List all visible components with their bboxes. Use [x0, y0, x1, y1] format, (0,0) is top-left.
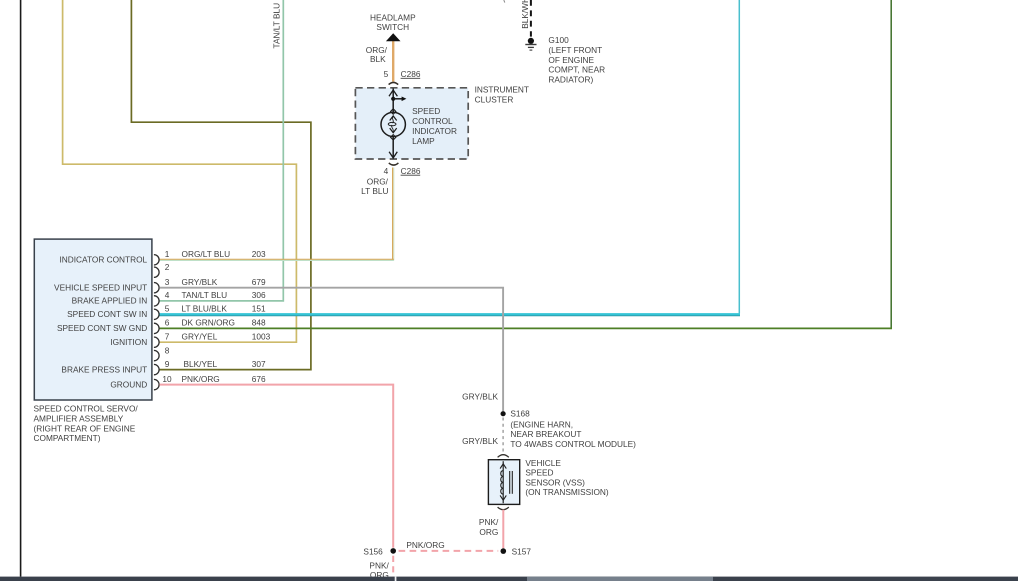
svg-text:ORG/: ORG/	[367, 176, 389, 186]
label VEHICLE SPEED SENSOR	[525, 458, 609, 497]
svg-text:VEHICLE: VEHICLE	[525, 458, 561, 468]
connector C286 pin 5	[384, 69, 421, 85]
svg-text:3: 3	[165, 277, 170, 287]
wire ORG/LT BLU pin 1 horizontal	[160, 259, 394, 260]
svg-text:COMPARTMENT): COMPARTMENT)	[34, 433, 101, 443]
svg-text:679: 679	[252, 277, 266, 287]
svg-text:1003: 1003	[252, 332, 271, 342]
wire GRY/YEL pin 7 run	[63, 0, 297, 342]
svg-text:TAN/LT BLU: TAN/LT BLU	[182, 290, 228, 300]
svg-text:AMPLIFIER ASSEMBLY: AMPLIFIER ASSEMBLY	[34, 413, 124, 423]
svg-text:DK GRN/ORG: DK GRN/ORG	[182, 318, 235, 328]
wire PNK/ORG dashed below S156	[369, 556, 393, 581]
label ORG/BLK	[366, 45, 388, 64]
svg-text:C286: C286	[401, 166, 421, 176]
wire GRY/BLK dashed	[502, 418, 504, 453]
pin 1	[154, 249, 266, 265]
label GRY/BLK lower	[462, 436, 498, 446]
label G100	[548, 35, 605, 84]
VSS internal sensor	[500, 461, 512, 503]
svg-text:4: 4	[384, 166, 389, 176]
svg-text:GRY/BLK: GRY/BLK	[462, 436, 498, 446]
svg-text:848: 848	[252, 318, 266, 328]
svg-text:GRY/BLK: GRY/BLK	[462, 392, 498, 402]
svg-text:C286: C286	[401, 69, 421, 79]
svg-text:307: 307	[252, 359, 266, 369]
svg-text:INSTRUMENT: INSTRUMENT	[475, 84, 529, 94]
svg-text:S157: S157	[512, 546, 532, 556]
wire TAN/LT BLU pin 4 run	[160, 0, 284, 301]
svg-text:6: 6	[165, 318, 170, 328]
svg-text:CLUSTER: CLUSTER	[475, 94, 514, 104]
cluster internal wire bottom	[389, 137, 397, 159]
wire PNK/ORG vss	[502, 510, 504, 549]
wire PNK/ORG pin 10 run	[160, 385, 394, 548]
connector VSS top	[498, 455, 509, 458]
svg-text:5: 5	[165, 304, 170, 314]
svg-text:GRY/BLK: GRY/BLK	[182, 277, 218, 287]
svg-text:10: 10	[162, 374, 172, 384]
bottom scrollbar	[0, 577, 1018, 581]
svg-text:ORG: ORG	[479, 527, 498, 537]
wire DK GRN/ORG pin 6 run	[160, 0, 893, 328]
ground G100	[525, 38, 536, 50]
svg-text:203: 203	[252, 249, 266, 259]
branch arrow right	[393, 97, 406, 102]
svg-text:7: 7	[165, 332, 170, 342]
svg-text:TO 4WABS CONTROL MODULE): TO 4WABS CONTROL MODULE)	[510, 439, 636, 449]
svg-text:ORG/LT BLU: ORG/LT BLU	[182, 249, 231, 259]
svg-text:BRAKE APPLIED IN: BRAKE APPLIED IN	[72, 296, 148, 306]
svg-text:8: 8	[165, 345, 170, 355]
svg-text:S156: S156	[363, 546, 383, 556]
headlamp switch arrow	[386, 33, 401, 41]
wire BLK/WH dashed	[530, 0, 532, 37]
svg-text:BLK/YEL: BLK/YEL	[184, 359, 218, 369]
svg-text:INDICATOR CONTROL: INDICATOR CONTROL	[59, 255, 147, 265]
svg-text:9: 9	[165, 359, 170, 369]
wire ORG/LT BLU vertical	[393, 168, 394, 261]
svg-text:676: 676	[252, 374, 266, 384]
wire PNK/ORG dashed splice to splice	[399, 540, 499, 551]
svg-text:INDICATOR: INDICATOR	[412, 126, 457, 136]
label servo pin functions	[54, 255, 148, 390]
label ORG/LT BLU	[361, 176, 389, 196]
pin 10	[154, 374, 266, 390]
svg-text:BLK/WH: BLK/WH	[520, 0, 530, 29]
svg-text:2: 2	[165, 262, 170, 272]
svg-text:CONTROL: CONTROL	[412, 116, 453, 126]
label GRY/BLK upper	[462, 392, 498, 402]
svg-text:LAMP: LAMP	[412, 136, 435, 146]
pin 8	[154, 345, 170, 361]
svg-text:NEAR BREAKOUT: NEAR BREAKOUT	[510, 429, 581, 439]
splice S157	[501, 546, 532, 556]
label HEADLAMP SWITCH	[370, 13, 416, 33]
svg-text:G100: G100	[548, 35, 569, 45]
svg-text:SWITCH: SWITCH	[376, 22, 409, 32]
svg-text:151: 151	[252, 304, 266, 314]
wire LT BLU/BLK pin 5 run	[160, 0, 741, 316]
cluster internal wire top	[389, 88, 397, 112]
tick mark top	[504, 0, 505, 3]
VSS box	[488, 460, 519, 505]
svg-text:BRAKE PRESS INPUT: BRAKE PRESS INPUT	[61, 364, 147, 374]
svg-text:SPEED CONTROL SERVO/: SPEED CONTROL SERVO/	[34, 404, 139, 414]
splice S168	[501, 411, 506, 416]
svg-text:COMPT, NEAR: COMPT, NEAR	[548, 65, 605, 75]
label INSTRUMENT CLUSTER	[475, 84, 529, 104]
svg-text:HEADLAMP: HEADLAMP	[370, 13, 416, 23]
pin 9	[154, 359, 266, 375]
connector VSS bottom	[498, 507, 509, 510]
svg-text:306: 306	[252, 290, 266, 300]
svg-text:(RIGHT REAR OF ENGINE: (RIGHT REAR OF ENGINE	[34, 423, 136, 433]
label S168	[510, 409, 636, 450]
svg-text:TAN/LT BLU: TAN/LT BLU	[272, 3, 282, 49]
connector C286 pin 4	[384, 163, 421, 176]
label TAN/LT BLU vertical	[272, 3, 282, 49]
svg-text:5: 5	[384, 69, 389, 79]
wire ORG/BLK	[392, 41, 394, 82]
lamp U1 speed control indicator	[381, 109, 405, 140]
svg-text:RADIATOR): RADIATOR)	[548, 75, 593, 85]
svg-text:GRY/YEL: GRY/YEL	[182, 332, 218, 342]
svg-text:BLK: BLK	[370, 54, 386, 64]
pin 5	[154, 304, 266, 320]
wire BLK/YEL pin 9 run	[131, 0, 311, 370]
svg-text:PNK/ORG: PNK/ORG	[406, 540, 444, 550]
svg-text:S168: S168	[510, 409, 530, 419]
pin 2	[154, 262, 170, 278]
instrument cluster box	[355, 88, 468, 159]
svg-text:SENSOR (VSS): SENSOR (VSS)	[525, 477, 585, 487]
svg-text:IGNITION: IGNITION	[110, 337, 147, 347]
svg-text:SPEED CONT SW GND: SPEED CONT SW GND	[57, 323, 147, 333]
svg-text:SPEED CONT SW IN: SPEED CONT SW IN	[67, 309, 147, 319]
splice S156	[363, 546, 396, 556]
svg-text:SPEED: SPEED	[412, 106, 440, 116]
pin 4	[154, 290, 266, 306]
pin 6	[154, 318, 266, 334]
svg-text:(ENGINE HARN,: (ENGINE HARN,	[510, 419, 573, 429]
label SPEED CONTROL SERVO assembly	[34, 404, 139, 444]
svg-text:LT BLU: LT BLU	[361, 186, 388, 196]
svg-text:(ON TRANSMISSION): (ON TRANSMISSION)	[525, 487, 609, 497]
svg-text:GROUND: GROUND	[110, 379, 147, 389]
label BLK/WH vertical	[520, 0, 530, 29]
label SPEED CONTROL INDICATOR LAMP	[412, 106, 457, 146]
svg-text:1: 1	[165, 249, 170, 259]
svg-text:4: 4	[165, 290, 170, 300]
svg-text:PNK/ORG: PNK/ORG	[182, 374, 220, 384]
svg-text:SPEED: SPEED	[525, 468, 553, 478]
junction dot	[391, 97, 395, 101]
pin 7	[154, 332, 271, 348]
servo connector box	[34, 239, 152, 400]
svg-text:PNK/: PNK/	[479, 517, 499, 527]
wire BLK left vertical	[20, 0, 22, 577]
svg-text:VEHICLE SPEED INPUT: VEHICLE SPEED INPUT	[54, 283, 147, 293]
svg-text:LT BLU/BLK: LT BLU/BLK	[182, 304, 228, 314]
wire GRY/BLK pin 3 run	[160, 288, 504, 412]
svg-text:(LEFT FRONT: (LEFT FRONT	[548, 45, 602, 55]
label PNK/ORG vss	[479, 517, 499, 537]
svg-text:OF ENGINE: OF ENGINE	[548, 55, 594, 65]
pin 3	[154, 277, 266, 293]
